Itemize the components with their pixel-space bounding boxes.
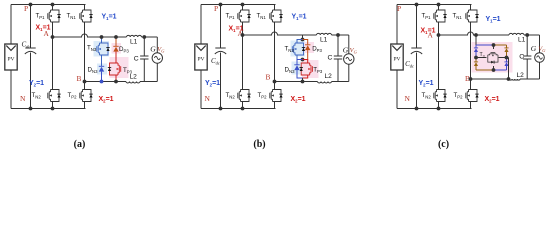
capacitor Cdc b <box>220 5 222 49</box>
svg-text:G: G <box>150 45 156 54</box>
wire leg2 c <box>470 22 472 90</box>
svg-text:Y2=1: Y2=1 <box>205 80 220 88</box>
wire blue branch bottom a <box>101 72 103 82</box>
svg-text:Y2=1: Y2=1 <box>419 80 434 88</box>
svg-text:G: G <box>531 44 537 53</box>
wire grid top c <box>539 35 541 53</box>
capacitor C c <box>523 55 531 57</box>
wire B rail a <box>85 81 127 83</box>
wire grid bottom c <box>539 62 541 79</box>
wire N rail b <box>201 108 276 110</box>
inductor L1 b <box>317 33 332 35</box>
svg-text:(c): (c) <box>438 139 449 150</box>
transistor TP2 b <box>273 90 282 102</box>
svg-text:(b): (b) <box>253 139 265 150</box>
wire P rail b <box>201 4 276 6</box>
node dots N rail a <box>29 107 33 111</box>
wire A stub b <box>302 35 304 40</box>
inductor L2 b <box>318 82 332 83</box>
wire cell left lead c <box>476 57 487 59</box>
node A c <box>437 33 441 37</box>
wire B stub b <box>302 78 304 82</box>
highlight switch cell c <box>472 42 513 73</box>
wire cell feed c <box>475 35 477 45</box>
wire red branch bottom a <box>115 75 117 82</box>
node B b <box>273 80 277 84</box>
PV source b <box>195 44 207 70</box>
wire grid bottom a <box>156 63 158 81</box>
PV source c <box>391 44 403 70</box>
highlight DN3 a <box>97 64 107 75</box>
wire B rail right b <box>332 81 349 83</box>
highlight DN3 b <box>292 62 303 75</box>
svg-text:L1: L1 <box>130 39 138 46</box>
wire cell bottom stub c <box>493 66 495 70</box>
wire A rail c <box>439 32 510 35</box>
transistor TN3 a <box>100 43 109 55</box>
wire A rail right c <box>524 34 540 36</box>
wire PV branch b <box>200 5 202 45</box>
svg-text:A: A <box>428 31 434 40</box>
diode DP3 a <box>113 45 118 47</box>
svg-text:P: P <box>24 4 28 13</box>
highlight TP3 a <box>110 57 129 78</box>
AC grid source G b <box>344 54 354 64</box>
svg-text:(a): (a) <box>74 139 86 150</box>
node C top a <box>142 35 146 39</box>
transistor TP1 b <box>242 5 244 11</box>
node B c <box>469 77 473 81</box>
wire B rail b <box>275 81 318 83</box>
wire P rail c <box>397 4 472 6</box>
svg-text:Y1=1: Y1=1 <box>102 13 117 21</box>
subfigure c <box>391 3 546 150</box>
node dots P rail a <box>29 3 33 7</box>
highlight TP3 b <box>302 60 319 78</box>
wire red branch mid a <box>115 52 117 63</box>
highlight TN3 b <box>291 41 306 57</box>
wire grid top b <box>348 35 350 54</box>
wire pair1 join b <box>297 55 303 60</box>
wire pair2 join b <box>297 70 303 78</box>
svg-text:C: C <box>328 54 333 61</box>
svg-text:C: C <box>519 53 524 60</box>
subfigure b <box>195 3 358 150</box>
wire cell top stub c <box>493 45 495 49</box>
wire C branch b <box>337 35 339 56</box>
svg-text:C: C <box>134 56 139 63</box>
wire A rail right b <box>332 34 349 36</box>
node A b <box>241 33 245 37</box>
AC grid source G a <box>152 53 162 63</box>
wire C branch low b <box>337 59 339 82</box>
wire cell right lead c <box>499 57 507 59</box>
capacitor C b <box>334 55 342 57</box>
transistor TN2 a <box>51 90 60 102</box>
node C top c <box>525 33 529 37</box>
svg-text:L2: L2 <box>517 72 525 79</box>
svg-text:B: B <box>77 74 82 83</box>
transistor TP3 a <box>110 63 119 75</box>
wire PV branch a <box>10 5 12 45</box>
svg-text:L2: L2 <box>325 73 333 80</box>
wire pair1 split b <box>297 40 303 44</box>
wire C branch low c <box>526 59 528 79</box>
wire cell bottom bus c <box>476 69 494 71</box>
subfigure a <box>5 3 165 150</box>
wire B rail c <box>471 78 510 80</box>
wire leg2 b <box>274 22 276 90</box>
node B a <box>83 80 87 84</box>
wire leg1 c <box>438 22 440 90</box>
svg-text:P: P <box>214 4 218 13</box>
svg-text:L1: L1 <box>320 37 328 44</box>
wire N rail c <box>397 108 472 110</box>
transistor TP2 c <box>469 90 478 102</box>
node C top b <box>336 33 340 37</box>
transistor TP1 c <box>438 5 440 11</box>
wire B rail right a <box>140 81 157 83</box>
inductor L1 c <box>509 33 524 35</box>
diode DN3 b <box>294 64 299 66</box>
svg-text:L1: L1 <box>518 37 526 44</box>
wire pair2 split b <box>297 60 303 65</box>
diode DP3 b <box>305 44 310 46</box>
svg-text:P: P <box>397 4 401 13</box>
svg-text:PV: PV <box>7 57 14 63</box>
node A a <box>51 35 55 39</box>
wire cell to B rail c <box>508 58 510 80</box>
AC grid source G c <box>535 53 545 63</box>
diode DN3 a <box>99 65 104 67</box>
highlight TN3 a <box>94 41 110 57</box>
svg-text:PV: PV <box>393 57 400 63</box>
capacitor C a <box>140 55 148 57</box>
wire grid bottom b <box>348 64 350 81</box>
diode cell BR c <box>506 58 508 62</box>
node cell left c <box>474 56 478 60</box>
transistor TP2 a <box>83 90 92 102</box>
transistor TN1 a <box>84 5 86 11</box>
node dots P rail b <box>219 3 223 7</box>
transistor TP3 b <box>301 63 310 75</box>
svg-text:Y2=1: Y2=1 <box>29 80 44 88</box>
svg-text:B: B <box>266 73 271 82</box>
diode cell BL c <box>475 58 477 62</box>
node dots N rail b <box>219 107 223 111</box>
wire leg1 a <box>52 22 54 90</box>
wire B rail right c <box>520 78 540 80</box>
svg-text:N: N <box>405 94 411 103</box>
transistor TN3 b <box>295 43 304 55</box>
wire grid top a <box>156 37 158 53</box>
highlight DP3 b <box>305 42 315 53</box>
transistor TN2 b <box>241 90 250 102</box>
svg-text:PV: PV <box>197 57 204 63</box>
node dots N rail c <box>415 107 419 111</box>
wire blue branch a <box>101 37 103 43</box>
wire A rail b <box>243 32 317 35</box>
svg-text:G: G <box>343 46 349 55</box>
capacitor Cdc c <box>416 5 418 49</box>
capacitor Cdc a <box>30 5 32 49</box>
wire A rail a <box>53 34 127 37</box>
wire C branch low a <box>143 59 145 82</box>
inductor L2 c <box>510 79 521 80</box>
transistor TP1 a <box>52 5 54 11</box>
inductor L2 a <box>126 82 140 83</box>
wire red branch a <box>115 37 117 46</box>
wire N rail a <box>11 108 86 110</box>
svg-text:Y1=1: Y1=1 <box>486 16 501 24</box>
wire PV branch c <box>396 5 398 45</box>
diode cell TL c <box>475 45 477 48</box>
highlight DP3 a <box>112 43 122 54</box>
svg-text:N: N <box>20 94 26 103</box>
svg-text:A: A <box>44 29 50 38</box>
transistor TN1 b <box>274 5 276 11</box>
wire C branch a <box>143 37 145 56</box>
wire P rail a <box>11 4 86 6</box>
svg-text:X2=1: X2=1 <box>485 96 500 104</box>
transistor T3 c <box>488 53 498 64</box>
wire blue branch mid a <box>101 55 103 66</box>
wire A rail right a <box>142 36 158 38</box>
svg-text:X2=1: X2=1 <box>291 96 306 104</box>
PV source a <box>5 44 17 70</box>
wire leg1 b <box>242 22 244 90</box>
inductor L1 a <box>127 35 142 37</box>
node cell right c <box>505 56 509 60</box>
wire cell top bus c <box>476 44 494 46</box>
wire leg2 a <box>84 22 86 90</box>
transistor TN1 c <box>470 5 472 11</box>
svg-text:N: N <box>205 94 211 103</box>
transistor TN2 c <box>437 90 446 102</box>
wire C branch c <box>526 35 528 56</box>
node dots P rail c <box>415 3 419 7</box>
svg-text:X2=1: X2=1 <box>99 96 114 104</box>
diode cell TR c <box>506 45 508 48</box>
svg-text:Y1=1: Y1=1 <box>292 13 307 21</box>
